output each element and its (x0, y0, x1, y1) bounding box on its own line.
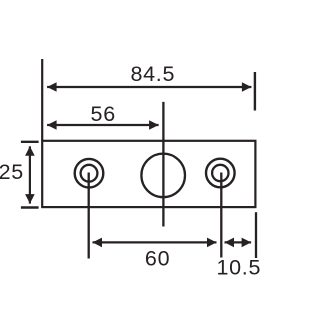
right hole outer circle (206, 159, 235, 188)
dimension line 10.5 (225, 241, 252, 243)
extension line: right edge below plate for 10.5 (255, 212, 257, 258)
arrowhead 56 left (47, 120, 57, 130)
arrowhead 84.5 right (242, 82, 252, 92)
right hole inner circle (212, 165, 228, 181)
center line (vertical through middle circle) (162, 102, 164, 227)
extension line: left vertical (84.5/56 datum) (41, 59, 43, 141)
dimension line 56 (47, 124, 159, 126)
arrowhead 25 up (25, 146, 35, 156)
dimension line 25 (vertical) (29, 146, 31, 203)
left hole inner circle (81, 165, 98, 182)
left hole center line (vertical) (88, 173, 90, 259)
svg-text:60: 60 (145, 246, 170, 270)
dimension line 84.5 (47, 86, 251, 88)
arrowhead 84.5 left (47, 82, 57, 92)
plate outline (42, 141, 255, 207)
svg-text:84.5: 84.5 (130, 62, 175, 86)
left hole outer circle (75, 159, 104, 188)
arrowhead 10.5 left (225, 238, 235, 248)
arrowhead 10.5 right (242, 238, 252, 248)
svg-text:10.5: 10.5 (216, 256, 261, 280)
arrowhead 60 left (93, 238, 103, 248)
right hole center line (vertical) (220, 173, 222, 258)
svg-text:56: 56 (91, 102, 116, 126)
arrowhead 25 down (25, 194, 35, 204)
svg-text:25: 25 (0, 160, 24, 184)
arrowhead 60 right (207, 238, 217, 248)
extension dash: top-left for 25 (21, 141, 39, 143)
arrowhead 56 right (149, 120, 159, 130)
extension dash: bottom-left for 25 (21, 206, 39, 208)
dimension line 60 (93, 241, 217, 243)
center large circle (141, 154, 185, 198)
extension line: right tick for 84.5 (254, 72, 256, 111)
